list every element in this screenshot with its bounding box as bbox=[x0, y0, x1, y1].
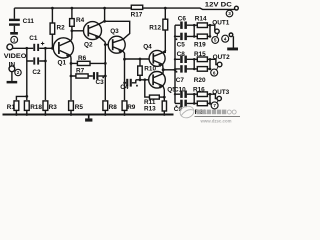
svg-text:C3: C3 bbox=[96, 79, 105, 86]
node input terminal 1 bbox=[7, 44, 13, 50]
resistor R18 bbox=[24, 101, 29, 111]
wire cap join OUT1 bbox=[193, 25, 195, 36]
resistor R21 bbox=[197, 101, 207, 106]
svg-text:R15: R15 bbox=[194, 51, 206, 58]
svg-text:R17: R17 bbox=[131, 12, 143, 19]
svg-text:3: 3 bbox=[228, 11, 231, 16]
resistor R4 bbox=[70, 19, 75, 27]
capacitor C2 bbox=[33, 57, 35, 64]
resistor R7 bbox=[76, 74, 88, 78]
wire collector bus to Q3 bbox=[105, 21, 130, 39]
capacitor C7 bbox=[180, 65, 183, 72]
svg-text:R10: R10 bbox=[144, 66, 156, 73]
node circled 4 bbox=[222, 35, 229, 42]
wire to Q1 base bbox=[39, 47, 53, 49]
ground OUT1 shield bbox=[229, 33, 233, 37]
svg-text:C5: C5 bbox=[177, 42, 186, 49]
svg-text:R6: R6 bbox=[78, 55, 87, 62]
wire Q5 emitter column bbox=[163, 90, 165, 102]
capacitor C8 bbox=[180, 56, 183, 63]
resistor R1 bbox=[14, 101, 19, 111]
svg-text:12V DC: 12V DC bbox=[205, 2, 232, 9]
wire Q3 base stub bbox=[105, 44, 108, 46]
capacitor C3 bbox=[93, 72, 95, 79]
node circled 5 bbox=[212, 37, 219, 44]
svg-text:www.dzsc.com: www.dzsc.com bbox=[200, 118, 232, 123]
resistor R14 bbox=[197, 23, 207, 28]
wire output bus bbox=[174, 25, 176, 103]
wire C4 column bbox=[124, 59, 126, 100]
node C1 polarity plus bbox=[41, 42, 44, 45]
svg-text:C2: C2 bbox=[32, 69, 41, 76]
svg-text:6: 6 bbox=[213, 70, 216, 75]
svg-text:C11: C11 bbox=[23, 18, 35, 25]
capacitor C10 bbox=[180, 91, 183, 98]
wire R11 drop from base row bbox=[145, 80, 150, 97]
svg-text:R5: R5 bbox=[75, 104, 84, 111]
svg-text:R9: R9 bbox=[127, 104, 136, 111]
node circled 7 bbox=[211, 102, 218, 109]
capacitor C1 bbox=[33, 44, 35, 51]
svg-text:R2: R2 bbox=[57, 25, 66, 32]
node circled 2 bbox=[15, 69, 21, 75]
capacitor C4 bbox=[126, 79, 128, 87]
resistor R5 bbox=[69, 101, 74, 111]
ground input shield bbox=[11, 72, 13, 81]
svg-text:VIDEO: VIDEO bbox=[4, 53, 27, 60]
resistor R10 bbox=[138, 66, 143, 75]
svg-text:R19: R19 bbox=[194, 42, 206, 49]
svg-text:IN: IN bbox=[9, 61, 16, 68]
svg-text:2: 2 bbox=[17, 70, 20, 75]
wire Q2 collector riser bbox=[104, 8, 106, 21]
svg-text:Q3: Q3 bbox=[110, 28, 119, 35]
node C3 polarity bbox=[102, 77, 104, 79]
transistor Q4 bbox=[149, 50, 165, 66]
svg-text:Q4: Q4 bbox=[143, 43, 152, 50]
node OUT1 terminal bbox=[215, 29, 219, 33]
capacitor C5 bbox=[180, 33, 183, 40]
wire C5 row bbox=[175, 35, 194, 37]
svg-text:C6: C6 bbox=[178, 16, 187, 23]
svg-text:C1: C1 bbox=[29, 35, 38, 42]
transistor Q5 bbox=[149, 72, 166, 89]
resistor R11 bbox=[150, 95, 160, 99]
wire R18 column bbox=[26, 61, 28, 100]
svg-text:R1: R1 bbox=[7, 104, 16, 111]
wire cap join OUT3 bbox=[193, 94, 195, 103]
circled terminal numbers bbox=[11, 10, 233, 109]
wire C4 to Q5 base row bbox=[132, 80, 149, 83]
wire resistor join OUT1 bbox=[210, 25, 215, 36]
watermark cjk text bbox=[197, 110, 227, 115]
wire C2 parallel branch bbox=[27, 48, 46, 61]
node C7 polarity bbox=[176, 71, 178, 73]
svg-text:C7: C7 bbox=[176, 77, 185, 84]
svg-text:Q1: Q1 bbox=[58, 60, 67, 67]
node circled 3 bbox=[226, 10, 233, 17]
svg-text:R20: R20 bbox=[194, 77, 206, 84]
resistor R3 bbox=[43, 101, 48, 111]
svg-text:R4: R4 bbox=[76, 17, 85, 24]
svg-text:R18: R18 bbox=[30, 104, 42, 111]
wire top supply rail bbox=[14, 8, 234, 9]
watermark logo swirl bbox=[179, 104, 240, 123]
wire C6 row bbox=[175, 24, 194, 26]
svg-text:OUT1: OUT1 bbox=[212, 19, 229, 26]
capacitor C11 bbox=[13, 8, 15, 32]
svg-text:4: 4 bbox=[224, 36, 227, 41]
svg-text:R7: R7 bbox=[76, 67, 85, 74]
wire input row bbox=[13, 47, 34, 49]
wire C7 row bbox=[175, 68, 194, 70]
svg-text:Q2: Q2 bbox=[84, 41, 93, 48]
resistor R13 bbox=[162, 101, 166, 111]
transistor Q2 bbox=[84, 22, 102, 40]
svg-text:OUT2: OUT2 bbox=[213, 54, 230, 61]
svg-text:R3: R3 bbox=[49, 104, 58, 111]
node C9 polarity bbox=[176, 105, 178, 107]
svg-text:C10: C10 bbox=[174, 86, 186, 93]
node circled 6 bbox=[211, 69, 218, 76]
wire collector node to bus bbox=[163, 69, 175, 71]
resistor R8 bbox=[103, 101, 108, 111]
resistor R17 bbox=[131, 5, 142, 9]
svg-text:R12: R12 bbox=[149, 25, 161, 32]
svg-text:5: 5 bbox=[214, 38, 217, 43]
resistor R6 bbox=[77, 61, 90, 65]
wire Q3 emitter to Q4 base bbox=[125, 58, 150, 60]
wire C10 row bbox=[175, 93, 194, 95]
resistor R15 bbox=[197, 57, 207, 62]
svg-text:R16: R16 bbox=[193, 86, 205, 93]
wire C8 row bbox=[175, 58, 194, 60]
wire Q2 emitter column V1 bbox=[104, 42, 106, 100]
svg-text:C8: C8 bbox=[177, 51, 186, 58]
node circled 1 bbox=[11, 36, 18, 43]
resistor R16 bbox=[197, 92, 207, 97]
wire cap join OUT2 bbox=[193, 59, 195, 69]
resistor R19 bbox=[197, 34, 207, 39]
node C4 polarity bbox=[136, 85, 138, 87]
transistor Q3 bbox=[108, 36, 125, 53]
resistor R2 bbox=[50, 23, 55, 34]
transistor Q1 bbox=[53, 38, 73, 58]
capacitor C6 bbox=[180, 22, 183, 29]
wire R3 column bbox=[44, 61, 46, 100]
resistor R20 bbox=[197, 67, 207, 72]
wire R1 jog bbox=[16, 96, 26, 100]
capacitor C9 bbox=[180, 100, 183, 107]
svg-text:1: 1 bbox=[13, 37, 16, 42]
wire bottom ground rail bbox=[3, 114, 174, 116]
svg-text:R13: R13 bbox=[144, 106, 156, 113]
wire C9 row bbox=[175, 102, 194, 104]
node input terminal 2 bbox=[9, 66, 15, 72]
wire Q1 emitter column bbox=[70, 58, 72, 100]
wire resistor join OUT3 bbox=[210, 94, 217, 103]
node OUT2 terminal bbox=[217, 62, 222, 67]
wire Q2 base row bbox=[72, 30, 84, 32]
node C5 polarity bbox=[176, 38, 178, 40]
watermark rule bbox=[195, 116, 241, 118]
node +12V terminal bbox=[235, 6, 239, 10]
wire C4 stub bbox=[125, 82, 127, 84]
resistor R9 bbox=[122, 101, 127, 111]
ground center symbol bbox=[88, 116, 90, 119]
resistor R12 bbox=[163, 19, 168, 30]
wire resistor join OUT2 bbox=[210, 59, 217, 69]
svg-text:OUT3: OUT3 bbox=[212, 89, 229, 96]
svg-text:C4: C4 bbox=[120, 84, 129, 91]
node OUT3 terminal bbox=[217, 96, 221, 100]
svg-text:R8: R8 bbox=[109, 104, 118, 111]
svg-text:7: 7 bbox=[213, 103, 216, 108]
svg-text:R14: R14 bbox=[195, 16, 207, 23]
